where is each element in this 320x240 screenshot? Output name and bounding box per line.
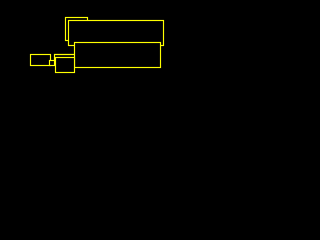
front window — [69, 21, 164, 46]
connector box — [50, 61, 55, 66]
left small rect — [31, 55, 51, 66]
lower window — [75, 43, 161, 68]
square box — [56, 58, 75, 73]
antenna wire — [55, 55, 75, 61]
back window — [66, 18, 88, 41]
